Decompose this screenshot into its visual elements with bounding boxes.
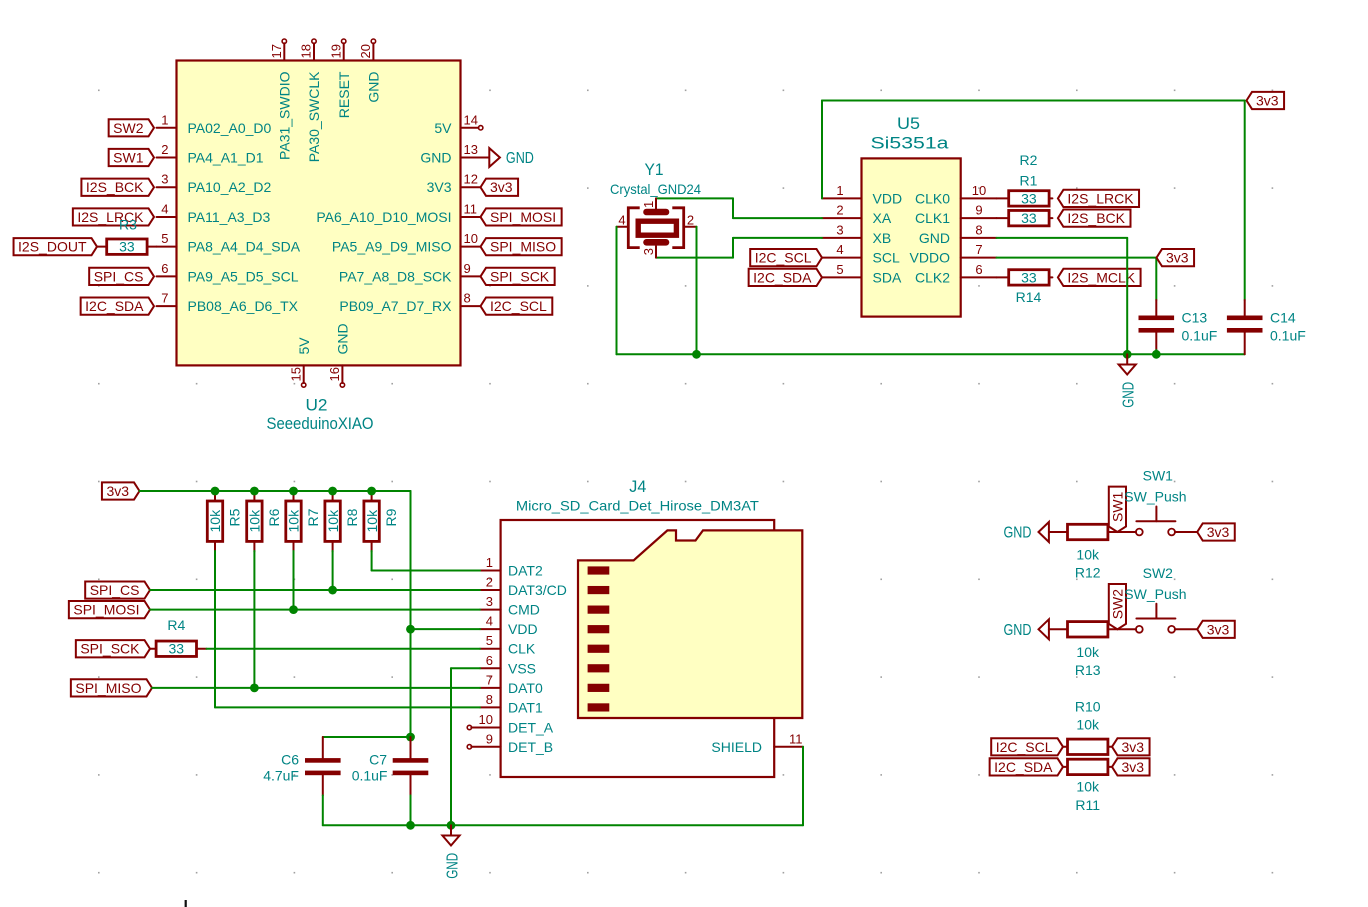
svg-text:I2S_BCK: I2S_BCK — [86, 179, 144, 195]
label SPI_SCK — [481, 268, 555, 285]
svg-text:8: 8 — [486, 692, 493, 707]
U2 pin 5 PA8_A4_D4_SDA — [157, 231, 301, 255]
svg-text:C6: C6 — [281, 752, 299, 768]
U5 pin 9 CLK1 — [915, 203, 997, 227]
svg-text:10k: 10k — [1076, 644, 1100, 660]
svg-text:10k: 10k — [1076, 547, 1100, 563]
IC U2 SeeeduinoXIAO body — [177, 61, 461, 366]
C14 value 0.1uF — [1270, 328, 1306, 344]
svg-text:4: 4 — [618, 213, 625, 228]
wire R6 to DAT0 — [253, 551, 255, 688]
svg-text:5V: 5V — [434, 120, 452, 136]
wire crystal pin4 to gnd rail — [616, 227, 618, 354]
svg-text:PB09_A7_D7_RX: PB09_A7_D7_RX — [339, 298, 452, 314]
svg-text:10: 10 — [972, 183, 986, 198]
junction R7 CMD — [289, 605, 298, 614]
switch SW2 SW_Push — [1136, 604, 1176, 633]
svg-text:PA5_A9_D9_MISO: PA5_A9_D9_MISO — [332, 239, 452, 255]
Y1 reference — [645, 160, 664, 179]
svg-text:CLK1: CLK1 — [915, 210, 950, 226]
grid dots — [98, 90, 1273, 874]
wire switch to 3v3 SW2 — [1175, 628, 1197, 630]
svg-text:PA31_SWDIO: PA31_SWDIO — [277, 71, 293, 160]
svg-text:5: 5 — [486, 633, 493, 648]
C13 value 0.1uF — [1182, 328, 1218, 344]
junction C13 gnd — [1152, 350, 1161, 359]
svg-text:3v3: 3v3 — [106, 483, 129, 499]
label I2C_SDA at U2 pin7 — [81, 298, 154, 315]
gnd rail top section — [617, 353, 1245, 355]
svg-text:PA10_A2_D2: PA10_A2_D2 — [188, 179, 272, 195]
svg-text:1: 1 — [161, 112, 168, 127]
label SPI_CS at U2 pin6 — [89, 268, 154, 285]
svg-text:SeeeduinoXIAO: SeeeduinoXIAO — [267, 414, 374, 433]
IC U5 Si5351a body — [862, 158, 961, 316]
J4 pin 4 VDD — [480, 614, 538, 638]
svg-text:SW2: SW2 — [1143, 565, 1174, 581]
svg-text:5: 5 — [161, 231, 168, 246]
sheet tick — [185, 900, 187, 907]
svg-text:CLK: CLK — [508, 641, 536, 657]
R10 value 10k — [1076, 717, 1100, 733]
svg-text:0.1uF: 0.1uF — [352, 768, 388, 784]
svg-text:SPI_MOSI: SPI_MOSI — [73, 602, 139, 618]
J4 pin 6 VSS — [480, 653, 536, 677]
J4 pin 3 CMD — [480, 594, 540, 618]
wire SPI_MISO — [152, 687, 480, 689]
J4 pin 5 CLK — [480, 633, 536, 657]
power GND R13 — [1004, 619, 1068, 639]
svg-text:I2S_MCLK: I2S_MCLK — [1067, 269, 1135, 285]
resistor R8 10k — [325, 491, 360, 552]
svg-text:2: 2 — [836, 203, 843, 218]
svg-text:GND: GND — [919, 230, 950, 246]
svg-text:11: 11 — [464, 201, 478, 216]
svg-text:I2S_BCK: I2S_BCK — [1067, 210, 1125, 226]
svg-text:Si5351a: Si5351a — [871, 134, 950, 153]
crystal Y1 right bracket — [672, 208, 683, 248]
svg-text:33: 33 — [1021, 210, 1037, 226]
svg-text:R2: R2 — [1020, 152, 1038, 168]
svg-text:PA7_A8_D8_SCK: PA7_A8_D8_SCK — [339, 268, 452, 284]
svg-text:GND: GND — [335, 323, 351, 354]
svg-text:XB: XB — [873, 230, 892, 246]
svg-text:R5: R5 — [227, 508, 243, 526]
U2 reference — [306, 396, 328, 415]
svg-text:R4: R4 — [167, 617, 185, 633]
junction R5 top — [211, 487, 220, 496]
svg-text:SPI_MOSI: SPI_MOSI — [490, 209, 556, 225]
svg-text:7: 7 — [975, 242, 982, 257]
resistor R4 33 — [150, 617, 197, 657]
U2 pin 14 5V — [434, 112, 478, 136]
U2 top pin 20 GND — [358, 39, 382, 103]
label SW2 net — [1109, 584, 1126, 629]
svg-text:R13: R13 — [1075, 662, 1101, 678]
svg-text:SHIELD: SHIELD — [711, 739, 762, 755]
power GND arrow sd — [442, 825, 461, 879]
svg-text:4: 4 — [836, 242, 843, 257]
J4 pin 1 DAT2 — [480, 555, 543, 579]
resistor R13 10k — [1068, 622, 1108, 637]
capacitor C6 — [305, 758, 341, 825]
U5 pin 2 XA — [822, 203, 892, 227]
svg-text:3: 3 — [836, 222, 843, 237]
svg-text:3v3: 3v3 — [1166, 250, 1189, 266]
svg-text:C7: C7 — [369, 752, 387, 768]
U2 pin14 open end — [479, 126, 483, 130]
wire U5 VDDO pin7 — [997, 258, 1157, 316]
U2 bottom pin 16 GND — [327, 323, 351, 387]
label I2S_BCK — [81, 179, 154, 196]
svg-text:R1: R1 — [1020, 173, 1038, 189]
label SPI_SCK sd — [76, 640, 150, 657]
SW1 reference — [1143, 468, 1174, 484]
SW2 reference — [1143, 565, 1174, 581]
svg-text:Crystal_GND24: Crystal_GND24 — [610, 181, 701, 197]
svg-text:I2S_LRCK: I2S_LRCK — [1067, 190, 1134, 206]
wire SPI_MOSI — [150, 609, 480, 611]
junction R6 DAT0 — [250, 683, 259, 692]
svg-text:VDD: VDD — [873, 190, 903, 206]
U5 pin 7 VDDO — [910, 242, 997, 266]
svg-text:2: 2 — [161, 142, 168, 157]
resistor R11 — [1063, 759, 1108, 774]
U2 value SeeeduinoXIAO — [267, 414, 374, 433]
R13 value 10k — [1076, 644, 1100, 660]
wire 3v3 rail — [140, 490, 411, 492]
svg-text:CMD: CMD — [508, 602, 540, 618]
svg-text:PA02_A0_D0: PA02_A0_D0 — [188, 120, 272, 136]
junction C7 top — [406, 733, 415, 742]
junction R6 top — [250, 487, 259, 496]
resistor R9 10k — [364, 491, 399, 552]
svg-text:10k: 10k — [1076, 779, 1100, 795]
wire XB to crystal — [656, 238, 822, 258]
svg-text:R3: R3 — [119, 217, 137, 233]
svg-text:R10: R10 — [1075, 699, 1101, 715]
power GND at U2 pin13 — [489, 148, 534, 167]
svg-text:GND: GND — [1121, 382, 1138, 408]
svg-text:3v3: 3v3 — [1122, 759, 1145, 775]
J4 card pad 3 — [588, 606, 610, 614]
svg-text:2: 2 — [486, 575, 493, 590]
svg-text:4.7uF: 4.7uF — [263, 767, 299, 783]
svg-text:DET_B: DET_B — [508, 739, 553, 755]
junction crystal pin2 — [692, 350, 701, 359]
U5 pin 6 CLK2 — [915, 262, 997, 286]
J4 sd-card outline — [578, 530, 802, 718]
svg-text:Y1: Y1 — [645, 160, 664, 179]
label I2C_SCL at U5 — [750, 249, 822, 266]
power GND arrow U5 — [1119, 354, 1138, 408]
svg-text:R11: R11 — [1075, 797, 1100, 813]
wire SPI_CS — [150, 589, 480, 591]
svg-text:SPI_SCK: SPI_SCK — [490, 268, 550, 284]
svg-text:3v3: 3v3 — [1207, 524, 1230, 540]
SW1 value SW_Push — [1124, 489, 1186, 505]
junction GND — [1123, 350, 1132, 359]
C14 reference — [1270, 310, 1296, 326]
svg-text:SPI_MISO: SPI_MISO — [490, 239, 556, 255]
label SPI_MISO sd — [71, 679, 152, 696]
U5 value Si5351a — [871, 134, 950, 153]
svg-text:SW1: SW1 — [113, 150, 144, 166]
power GND R12 — [1004, 522, 1068, 542]
label I2C_SCL pullup — [991, 738, 1063, 755]
svg-text:R6: R6 — [266, 508, 282, 526]
U2 pin 8 PB09_A7_D7_RX — [339, 291, 480, 315]
svg-text:7: 7 — [486, 672, 493, 687]
svg-text:SW1: SW1 — [1110, 491, 1126, 522]
svg-text:I2C_SDA: I2C_SDA — [994, 759, 1053, 775]
svg-text:6: 6 — [486, 653, 493, 668]
J4 pin 9 DET_B — [467, 731, 553, 755]
svg-text:U5: U5 — [897, 114, 920, 133]
svg-text:I2C_SCL: I2C_SCL — [755, 250, 812, 266]
J4 pin 11 SHIELD — [711, 731, 803, 755]
U5 pin 5 SDA — [822, 262, 902, 286]
resistor R1 33 — [997, 190, 1053, 206]
label I2C_SDA pullup — [990, 758, 1063, 775]
svg-text:10: 10 — [464, 231, 478, 246]
U2 top pin 17 PA31_SWDIO — [269, 39, 293, 160]
svg-text:PA9_A5_D5_SCL: PA9_A5_D5_SCL — [188, 268, 299, 284]
R1 reference — [1020, 173, 1038, 189]
U5 reference — [897, 114, 920, 133]
svg-text:6: 6 — [161, 261, 168, 276]
svg-text:3v3: 3v3 — [1122, 739, 1145, 755]
svg-text:GND: GND — [1004, 525, 1032, 542]
connector J4 body — [501, 520, 775, 777]
crystal Y1 bottom plate — [647, 239, 667, 246]
svg-text:SPI_CS: SPI_CS — [94, 268, 144, 284]
svg-text:SW_Push: SW_Push — [1124, 489, 1186, 505]
svg-text:17: 17 — [269, 44, 284, 58]
svg-text:GND: GND — [444, 853, 461, 879]
resistor R3 33 — [97, 217, 157, 255]
svg-text:3: 3 — [161, 172, 168, 187]
label I2S_DOUT — [14, 238, 97, 255]
svg-text:7: 7 — [161, 291, 168, 306]
svg-text:1: 1 — [486, 555, 493, 570]
crystal Y1 body — [638, 221, 676, 235]
svg-text:RESET: RESET — [336, 71, 352, 118]
J4 pin 10 DET_A — [467, 712, 554, 736]
svg-text:PA11_A3_D3: PA11_A3_D3 — [188, 209, 271, 225]
svg-text:13: 13 — [464, 142, 478, 157]
svg-text:20: 20 — [358, 44, 373, 58]
label SW1 net — [1109, 487, 1126, 532]
svg-text:I2C_SDA: I2C_SDA — [753, 269, 812, 285]
svg-text:10k: 10k — [247, 509, 263, 533]
svg-text:11: 11 — [789, 731, 803, 746]
svg-text:GND: GND — [420, 150, 451, 166]
U5 pin 1 VDD — [822, 183, 902, 207]
svg-text:SW2: SW2 — [113, 120, 144, 136]
J4 reference — [629, 477, 646, 496]
svg-text:0.1uF: 0.1uF — [1270, 328, 1306, 344]
svg-text:SW2: SW2 — [1110, 589, 1126, 620]
wire VDD — [411, 628, 481, 630]
J4 value — [516, 498, 759, 514]
svg-text:SDA: SDA — [873, 269, 902, 285]
svg-text:5: 5 — [836, 262, 843, 277]
wire C6 top — [323, 737, 411, 758]
svg-text:PA30_SWCLK: PA30_SWCLK — [306, 71, 322, 162]
junction gnd arrow sd — [447, 821, 456, 830]
J4 card pad 5 — [588, 645, 610, 653]
svg-text:PA6_A10_D10_MOSI: PA6_A10_D10_MOSI — [316, 209, 451, 225]
svg-text:3v3: 3v3 — [1207, 621, 1230, 637]
J4 pin 8 DAT1 — [480, 692, 543, 716]
svg-text:18: 18 — [299, 44, 314, 58]
label 3v3 SW2 — [1197, 621, 1235, 638]
svg-text:0.1uF: 0.1uF — [1182, 328, 1218, 344]
svg-text:9: 9 — [975, 203, 982, 218]
junction R8 top — [328, 487, 337, 496]
svg-text:PA8_A4_D4_SDA: PA8_A4_D4_SDA — [188, 239, 301, 255]
label I2C_SDA at U5 — [749, 269, 822, 286]
wire SHIELD to gnd rail — [802, 747, 804, 826]
R2 reference — [1020, 152, 1038, 168]
svg-text:3V3: 3V3 — [427, 179, 452, 195]
resistor R10 — [1063, 739, 1108, 754]
svg-text:CLK2: CLK2 — [915, 269, 950, 285]
svg-text:SW1: SW1 — [1143, 468, 1174, 484]
resistor R12 10k — [1068, 524, 1108, 539]
label 3v3 SW1 — [1197, 523, 1235, 540]
resistor R6 10k — [247, 491, 282, 552]
U2 pin 9 PA7_A8_D8_SCK — [339, 261, 481, 285]
U2 pin 7 PB08_A6_D6_TX — [157, 291, 299, 315]
svg-text:6: 6 — [975, 262, 982, 277]
C6 reference — [281, 752, 299, 768]
J4 card pad 7 — [588, 684, 610, 692]
svg-text:DAT2: DAT2 — [508, 563, 543, 579]
wire R4 to CLK — [197, 648, 481, 650]
svg-text:U2: U2 — [306, 396, 328, 415]
svg-text:SPI_SCK: SPI_SCK — [80, 641, 140, 657]
label 3v3 at VDDO — [1157, 249, 1195, 266]
crystal pin 3 — [641, 246, 656, 258]
U2 pin 11 PA6_A10_D10_MOSI — [316, 201, 480, 225]
U5 pin 3 XB — [822, 222, 891, 246]
svg-text:DET_A: DET_A — [508, 720, 554, 736]
svg-text:I2S_DOUT: I2S_DOUT — [18, 239, 87, 255]
svg-text:33: 33 — [169, 641, 185, 657]
svg-text:10k: 10k — [207, 509, 223, 533]
svg-text:XA: XA — [873, 210, 892, 226]
svg-text:VDDO: VDDO — [910, 250, 951, 266]
svg-text:J4: J4 — [629, 477, 646, 496]
J4 card pad 4 — [588, 625, 610, 633]
svg-text:GND: GND — [366, 72, 382, 103]
svg-text:DAT0: DAT0 — [508, 680, 543, 696]
label SPI_MISO — [481, 238, 562, 255]
svg-text:10k: 10k — [1076, 717, 1100, 733]
J4 pin 7 DAT0 — [480, 672, 543, 696]
svg-text:33: 33 — [1021, 269, 1037, 285]
svg-text:9: 9 — [464, 261, 471, 276]
junction VDD tap — [406, 625, 415, 634]
R10 reference — [1075, 699, 1101, 715]
label 3v3 at U2 pin12 — [481, 179, 519, 196]
svg-text:SW_Push: SW_Push — [1124, 586, 1186, 602]
svg-text:33: 33 — [119, 239, 135, 255]
crystal pin 1 — [641, 198, 656, 208]
svg-text:DAT1: DAT1 — [508, 699, 543, 715]
wire VDD to 3v3 rail — [822, 101, 1245, 199]
svg-text:R9: R9 — [383, 508, 399, 526]
svg-text:Micro_SD_Card_Det_Hirose_DM3AT: Micro_SD_Card_Det_Hirose_DM3AT — [516, 498, 759, 514]
resistor R14 33 — [997, 269, 1053, 285]
wire 3v3 vertical to VDD and C7 — [410, 491, 412, 737]
svg-text:C14: C14 — [1270, 310, 1296, 326]
svg-text:PA4_A1_D1: PA4_A1_D1 — [188, 150, 264, 166]
wire XA to crystal — [656, 198, 822, 218]
U2 pin 10 PA5_A9_D9_MISO — [332, 231, 481, 255]
wire crystal pin2 to gnd rail — [696, 227, 698, 354]
junction R9 top — [367, 487, 376, 496]
Y1 value Crystal_GND24 — [610, 181, 701, 197]
U2 pin 2 PA4_A1_D1 — [157, 142, 264, 166]
U2 pin 13 GND — [420, 142, 489, 166]
svg-text:PB08_A6_D6_TX: PB08_A6_D6_TX — [188, 298, 299, 314]
svg-text:GND: GND — [1004, 622, 1032, 639]
label I2S_LRCK — [73, 208, 154, 225]
label I2S_LRCK — [1058, 190, 1139, 207]
U2 pin 12 3V3 — [427, 172, 481, 196]
wire R12 to switch — [1108, 531, 1136, 533]
svg-text:4: 4 — [486, 614, 493, 629]
svg-text:14: 14 — [464, 112, 478, 127]
R12 reference — [1075, 565, 1101, 581]
svg-text:R8: R8 — [344, 508, 360, 526]
svg-text:R12: R12 — [1075, 565, 1101, 581]
label SPI_MOSI — [481, 208, 562, 225]
resistor R2 33 — [997, 210, 1053, 226]
C7 reference — [369, 752, 387, 768]
U2 pin 6 PA9_A5_D5_SCL — [157, 261, 299, 285]
C6 value 4.7uF — [263, 767, 299, 783]
R11 value 10k — [1076, 779, 1100, 795]
gnd rail bottom — [323, 824, 803, 826]
svg-text:10k: 10k — [286, 509, 302, 533]
label I2S_BCK — [1058, 210, 1131, 227]
R12 value 10k — [1076, 547, 1100, 563]
switch SW1 SW_Push — [1136, 507, 1176, 536]
label SW1 — [109, 149, 154, 166]
label SW2 — [109, 119, 154, 136]
svg-text:I2C_SCL: I2C_SCL — [996, 739, 1053, 755]
label 3v3 sd section — [102, 482, 140, 499]
U5 pin 8 GND — [919, 222, 997, 246]
wire R9 to DAT2 — [372, 551, 480, 571]
junction C7 gnd — [406, 821, 415, 830]
junction R8 DAT3 — [328, 586, 337, 595]
U2 pin 4 PA11_A3_D3 — [157, 201, 271, 225]
svg-text:R14: R14 — [1016, 289, 1042, 305]
svg-text:15: 15 — [288, 367, 303, 381]
label SPI_CS sd — [85, 581, 150, 598]
C13 reference — [1182, 310, 1208, 326]
svg-text:1: 1 — [641, 201, 656, 208]
svg-text:1: 1 — [836, 183, 843, 198]
capacitor C13 — [1139, 316, 1175, 355]
J4 card pad 6 — [588, 664, 610, 672]
svg-text:I2C_SDA: I2C_SDA — [85, 298, 144, 314]
